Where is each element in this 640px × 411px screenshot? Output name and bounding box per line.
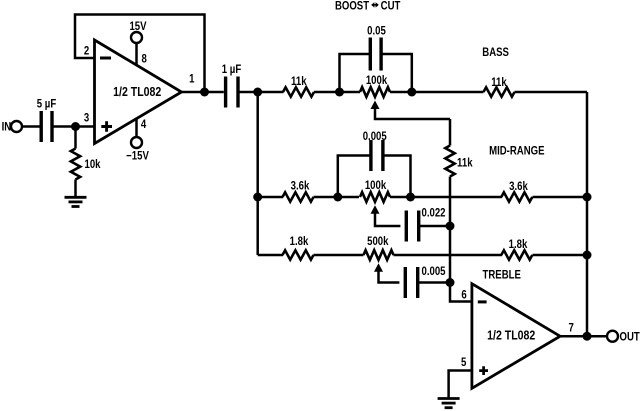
- wire R8 to right bus: [533, 254, 588, 257]
- wire pin 4 to -15V: [135, 118, 138, 137]
- svg-text:1 µF: 1 µF: [222, 63, 242, 76]
- node C6 junction: [446, 278, 455, 287]
- svg-text:10k: 10k: [84, 158, 101, 171]
- svg-text:TREBLE: TREBLE: [483, 269, 521, 282]
- svg-text:15V: 15V: [129, 20, 147, 33]
- node treble right bus: [583, 251, 592, 260]
- resistor R5 3.6k mid: [283, 192, 314, 201]
- svg-text:3: 3: [84, 112, 89, 125]
- op-amp U1 1/2 TL082: [95, 40, 182, 144]
- node bass pot right: [407, 88, 416, 97]
- svg-text:11k: 11k: [291, 75, 307, 88]
- wire right bus: [586, 92, 589, 336]
- resistor R6 3.6k mid right: [501, 192, 532, 201]
- output terminal OUT: [607, 331, 618, 342]
- wire U1 output: [182, 91, 224, 94]
- resistor R3 11k bass right: [484, 87, 515, 96]
- svg-text:0.05: 0.05: [367, 25, 386, 38]
- svg-text:OUT: OUT: [620, 331, 640, 344]
- terminal 15V supply: [131, 32, 142, 43]
- wire left bus: [256, 92, 259, 255]
- svg-text:0.022: 0.022: [421, 207, 445, 220]
- svg-text:11k: 11k: [491, 76, 507, 89]
- svg-text:2: 2: [84, 44, 89, 57]
- svg-text:8: 8: [142, 52, 147, 65]
- capacitor C1 5uF: [41, 111, 52, 142]
- svg-text:MID-RANGE: MID-RANGE: [489, 145, 544, 158]
- svg-text:0.005: 0.005: [421, 265, 445, 278]
- capacitor C4 0.005 mid: [371, 140, 383, 171]
- wire C4 parallel left: [338, 156, 371, 198]
- svg-text:1/2 TL082: 1/2 TL082: [487, 327, 535, 342]
- wire P1 to R3: [390, 91, 484, 94]
- wire R1 to ground: [74, 180, 77, 198]
- wire wiper bus lower: [450, 177, 472, 302]
- wiper P1 arrow: [371, 101, 380, 110]
- svg-text:0.005: 0.005: [363, 130, 387, 143]
- wire R6 to right bus: [533, 196, 588, 199]
- wire P1 wiper bus upper: [449, 119, 452, 146]
- node bass pot left: [335, 88, 344, 97]
- svg-text:1: 1: [189, 72, 194, 85]
- input terminal IN: [11, 121, 22, 132]
- wire R2 to P1: [314, 91, 360, 94]
- svg-text:6: 6: [461, 289, 466, 302]
- wire P3 to R8: [394, 254, 503, 257]
- resistor R4 11k vertical: [445, 146, 454, 177]
- svg-text:4: 4: [141, 118, 146, 131]
- svg-text:1.8k: 1.8k: [509, 238, 529, 251]
- svg-text:1.8k: 1.8k: [290, 235, 310, 248]
- wire pin 8 to 15V: [135, 43, 138, 65]
- svg-text:11k: 11k: [457, 157, 473, 170]
- svg-text:5 µF: 5 µF: [37, 97, 57, 110]
- svg-text:3.6k: 3.6k: [291, 179, 311, 192]
- wire R7 to P3: [314, 254, 364, 257]
- terminal -15V supply: [131, 137, 142, 148]
- wire R3 to right bus: [515, 91, 588, 94]
- wiper P3 arrow: [374, 263, 383, 272]
- node U1 output junction: [200, 88, 209, 97]
- resistor R1 10k: [71, 149, 80, 180]
- node C5 junction: [446, 222, 455, 231]
- node mid right bus: [583, 193, 592, 202]
- wiper P2 arrow: [371, 205, 380, 214]
- ground U2: [438, 397, 460, 400]
- svg-text:−15V: −15V: [126, 149, 149, 162]
- node mid pot left: [333, 193, 342, 202]
- capacitor C5 0.022: [406, 211, 418, 242]
- node B after C2: [253, 88, 262, 97]
- svg-text:IN: IN: [2, 121, 12, 134]
- wire node A to R1: [74, 127, 77, 149]
- wire C1 to op-amp pin 3: [52, 125, 95, 128]
- wire left bus to R7: [258, 254, 283, 257]
- wire U2 output: [560, 335, 607, 338]
- op-amp U2 1/2 TL082: [472, 284, 560, 389]
- node output junction: [583, 332, 592, 341]
- ground: [65, 196, 87, 199]
- capacitor C6 0.005 treble: [405, 267, 417, 298]
- wire IN terminal to C1: [22, 125, 40, 128]
- potentiometer P2 100k mid: [360, 192, 390, 202]
- wire R5 to P2: [314, 196, 360, 199]
- wire C4 parallel right: [383, 156, 411, 198]
- svg-text:1/2 TL082: 1/2 TL082: [113, 84, 161, 99]
- wire C2 to R2: [238, 91, 284, 94]
- capacitor C3 0.05 bass: [370, 38, 381, 71]
- svg-text:7: 7: [569, 322, 574, 335]
- wire feedback U1 output to pin 2: [75, 15, 205, 93]
- wire P2 to R6: [390, 196, 502, 199]
- wire pin 5 to ground: [449, 371, 472, 399]
- svg-text:CUT: CUT: [381, 0, 401, 13]
- svg-text:3.6k: 3.6k: [509, 180, 529, 193]
- svg-text:BOOST: BOOST: [335, 0, 369, 13]
- potentiometer P1 100k bass: [360, 87, 390, 97]
- capacitor C2 1uF: [226, 77, 238, 108]
- wire C3 parallel left: [340, 54, 371, 92]
- node mid pot right: [406, 193, 415, 202]
- node mid row left bus: [253, 193, 262, 202]
- wire C6 to wiper bus: [418, 281, 450, 284]
- svg-text:100k: 100k: [366, 74, 388, 87]
- svg-text:500k: 500k: [367, 235, 389, 248]
- wire left bus to R5: [258, 196, 283, 199]
- svg-text:5: 5: [461, 356, 466, 369]
- resistor R7 1.8k treble: [283, 250, 314, 259]
- resistor R2 11k bass: [283, 87, 314, 96]
- svg-text:BASS: BASS: [482, 46, 509, 59]
- resistor R8 1.8k treble right: [501, 250, 532, 259]
- potentiometer P3 500k treble: [364, 250, 394, 260]
- wire C3 parallel right: [381, 54, 412, 92]
- wire C5 to wiper bus: [419, 225, 450, 228]
- svg-text:100k: 100k: [365, 179, 387, 192]
- node A input junction: [71, 122, 80, 131]
